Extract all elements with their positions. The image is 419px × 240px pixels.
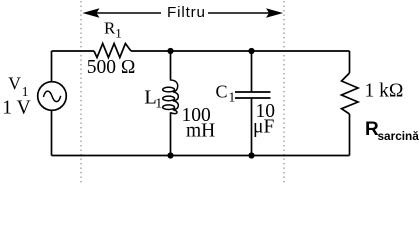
svg-text:μF: μF — [253, 117, 274, 138]
Filtru span arrow left segment — [84, 9, 161, 17]
wire: capacitor branch top — [251, 51, 253, 92]
wire: right vertical top — [349, 51, 351, 73]
svg-text:mH: mH — [186, 121, 215, 142]
svg-text:R: R — [104, 19, 116, 38]
svg-text:1 V: 1 V — [2, 97, 30, 118]
wire: bottom rail — [52, 155, 350, 157]
resistor R1 zigzag — [94, 44, 131, 58]
svg-text:1 kΩ: 1 kΩ — [365, 81, 404, 102]
svg-text:500 Ω: 500 Ω — [87, 57, 136, 78]
wire: inductor branch bottom — [170, 112, 172, 155]
source V1 sine — [44, 91, 61, 102]
node dot: capacitor top — [248, 48, 254, 54]
resistor Rsarcina zigzag — [342, 73, 359, 114]
capacitor C1 plates — [235, 91, 271, 93]
svg-text:1: 1 — [155, 96, 162, 111]
svg-text:1: 1 — [229, 90, 236, 105]
node dot: inductor top — [167, 48, 173, 54]
Filtru span arrow right segment — [208, 9, 282, 17]
svg-text:1: 1 — [115, 25, 122, 40]
wire: left vertical bottom — [51, 110, 53, 155]
svg-text:C: C — [216, 82, 228, 102]
wire: inductor branch top — [170, 51, 172, 81]
svg-text:V: V — [8, 74, 21, 94]
node dot: capacitor bottom — [248, 152, 254, 158]
node dot: inductor bottom — [167, 152, 173, 158]
wire: top rail left of R1 — [52, 50, 95, 52]
wire: right vertical bottom — [349, 114, 351, 156]
svg-text:sarcină: sarcină — [378, 129, 419, 143]
inductor L1 coil — [163, 80, 179, 114]
source V1 circle — [38, 82, 67, 111]
wire: capacitor branch bottom — [251, 98, 253, 156]
svg-text:Filtru: Filtru — [167, 4, 206, 21]
dotted boundary line right — [283, 1, 285, 183]
wire: left vertical top — [51, 51, 53, 82]
wire: top rail right of R1 — [131, 50, 350, 52]
dotted boundary line left — [80, 1, 82, 183]
